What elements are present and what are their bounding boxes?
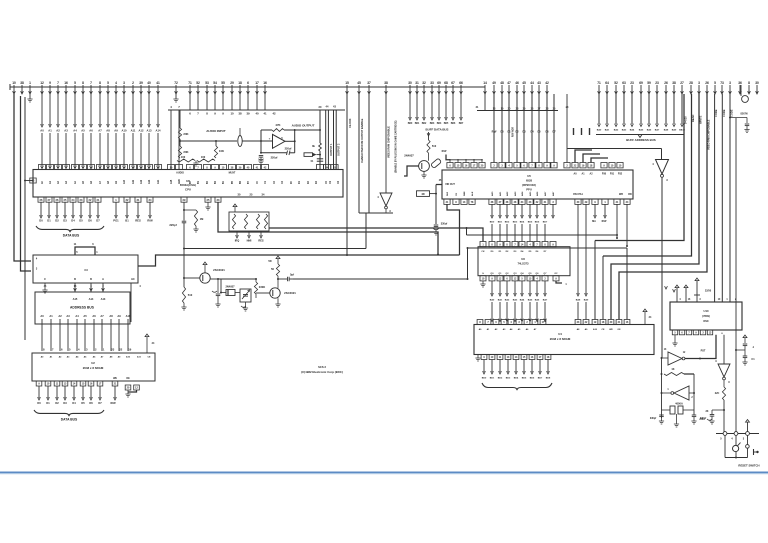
svg-text:A10: A10 xyxy=(122,129,127,133)
audio left wires down to CPU xyxy=(170,110,172,169)
latch bottom inside labels xyxy=(482,272,558,275)
svg-text:D0: D0 xyxy=(37,401,41,405)
svg-text:C3: C3 xyxy=(84,268,88,272)
resistor 1K feedback xyxy=(664,373,684,376)
svg-text:BA0: BA0 xyxy=(490,299,495,302)
resistor 100 left xyxy=(177,159,195,162)
svg-text:U5: U5 xyxy=(527,174,531,178)
svg-text:A6: A6 xyxy=(89,129,93,133)
svg-text:8: 8 xyxy=(99,81,101,85)
wire box40 to junction xyxy=(430,193,437,195)
audio rail pin numbers xyxy=(170,105,276,116)
svg-text:52: 52 xyxy=(614,81,618,85)
svg-text:2SC2021: 2SC2021 xyxy=(213,268,225,272)
svg-text:PG1: PG1 xyxy=(113,219,119,223)
svg-text:52: 52 xyxy=(196,81,200,85)
svg-text:SCS 3: SCS 3 xyxy=(318,365,326,369)
svg-text:BA4: BA4 xyxy=(630,129,635,132)
svg-text:38: 38 xyxy=(238,112,242,116)
svg-text:41: 41 xyxy=(156,81,160,85)
svg-text:ALE: ALE xyxy=(471,191,474,196)
svg-text:BD1: BD1 xyxy=(490,378,495,380)
resistor 230K xyxy=(255,279,257,282)
svg-text:14: 14 xyxy=(483,81,487,85)
svg-text:48: 48 xyxy=(500,81,504,85)
right connector rail segment xyxy=(477,110,558,112)
resistor 510 above Q3 xyxy=(428,132,430,140)
svg-text:A4: A4 xyxy=(75,314,79,318)
svg-text:P31: P31 xyxy=(610,173,615,176)
svg-text:15: 15 xyxy=(345,81,349,85)
transistor Q1 2SC2021 xyxy=(200,273,210,283)
CPU pins 25,33 xyxy=(205,197,211,202)
Q1 emitter wire xyxy=(210,278,218,280)
svg-text:D7: D7 xyxy=(98,401,102,405)
rail2 riser to U5 pin xyxy=(447,204,460,255)
U4 box xyxy=(474,325,654,355)
svg-text:230K: 230K xyxy=(259,285,265,289)
svg-text:BA8: BA8 xyxy=(664,129,669,132)
svg-text:38: 38 xyxy=(384,81,388,85)
svg-text:7: 7 xyxy=(90,81,92,85)
svg-text:+: + xyxy=(269,137,271,141)
svg-text:30: 30 xyxy=(408,81,412,85)
svg-text:A8: A8 xyxy=(106,129,110,133)
CPU top pin number boxes xyxy=(38,165,161,170)
CPU pin 36 box xyxy=(30,178,36,183)
staircase line 1 xyxy=(595,94,684,241)
capacitor 220uf to ground xyxy=(259,155,264,157)
latch U8 top pin boxes xyxy=(480,242,556,247)
svg-text:8: 8 xyxy=(748,81,750,85)
CPU U6 6502 box xyxy=(33,170,343,198)
svg-text:U4: U4 xyxy=(558,332,562,336)
svg-text:BD6: BD6 xyxy=(451,123,456,125)
svg-text:C: C xyxy=(44,278,46,281)
svg-text:BD3: BD3 xyxy=(430,123,435,125)
U5 pin21 wire down to rail xyxy=(616,204,618,238)
Q2 collector node xyxy=(277,278,279,280)
svg-text:23: 23 xyxy=(111,348,114,352)
svg-text:DATA BUS: DATA BUS xyxy=(61,418,78,422)
svg-text:AUDIO OUTPUT: AUDIO OUTPUT xyxy=(292,124,315,128)
svg-text:U10: U10 xyxy=(704,309,709,313)
svg-text:RESET SWITCH: RESET SWITCH xyxy=(738,464,759,468)
svg-text:BA6: BA6 xyxy=(535,299,540,302)
svg-text:A11: A11 xyxy=(132,179,135,184)
svg-text:4000A: 4000A xyxy=(675,402,683,406)
U5 bottom right pin boxes xyxy=(575,199,630,204)
svg-text:R/W: R/W xyxy=(602,220,607,223)
rail1 right segment to U5 pin 24 xyxy=(468,247,628,249)
right line arrow end b xyxy=(673,289,676,292)
svg-text:22: 22 xyxy=(119,348,122,352)
svg-text:CLOCK: CLOCK xyxy=(348,118,352,128)
diode D1 package xyxy=(431,158,442,168)
svg-text:BA7: BA7 xyxy=(543,299,548,302)
svg-text:AD4: AD4 xyxy=(521,191,524,196)
svg-text:BD5: BD5 xyxy=(522,378,527,380)
svg-text:45: 45 xyxy=(522,81,526,85)
decoder top loop xyxy=(75,247,95,255)
svg-text:BD3: BD3 xyxy=(513,222,518,224)
trimmer capacitor xyxy=(238,136,242,147)
svg-text:BA3: BA3 xyxy=(622,129,627,132)
svg-text:A10: A10 xyxy=(126,314,131,318)
svg-text:A0: A0 xyxy=(40,129,44,133)
svg-text:220uf: 220uf xyxy=(271,156,278,160)
svg-text:(RP2C003): (RP2C003) xyxy=(522,183,536,187)
svg-text:26: 26 xyxy=(705,81,709,85)
svg-text:3: 3 xyxy=(698,81,700,85)
capacitor at Q1 emitter xyxy=(217,279,219,293)
resistor 510 to ground xyxy=(182,287,185,303)
data bus brace xyxy=(36,226,104,232)
page bottom blue rule halo xyxy=(0,473,768,475)
svg-text:MUXT: MUXT xyxy=(229,172,236,175)
svg-text:BD5: BD5 xyxy=(528,222,533,224)
line from top pin 38 to inverter xyxy=(385,94,387,193)
audio input wire to trimmer xyxy=(180,140,237,142)
svg-text:69: 69 xyxy=(437,81,441,85)
svg-text:CK: CK xyxy=(481,251,485,253)
trimmer ground xyxy=(241,306,246,307)
U2 SRAM box xyxy=(32,353,155,381)
svg-text:BD3: BD3 xyxy=(506,378,511,380)
U10 tall vcc arrow with 22/50 xyxy=(695,278,699,281)
buff address bus bracket xyxy=(596,134,684,136)
svg-text:A12: A12 xyxy=(139,129,144,133)
svg-text:A2: A2 xyxy=(58,314,62,318)
svg-text:A7: A7 xyxy=(98,129,102,133)
svg-text:(7809): (7809) xyxy=(702,314,710,318)
rail y235 to U5 pin 21 xyxy=(467,234,618,236)
svg-text:OUTPUT 1: OUTPUT 1 xyxy=(330,143,333,156)
U4 vcc pin 24 xyxy=(643,309,647,312)
audio section top rail xyxy=(168,109,345,111)
svg-text:2048 x 8 SRAM: 2048 x 8 SRAM xyxy=(83,366,104,370)
svg-text:31: 31 xyxy=(415,81,419,85)
Q1 base wire xyxy=(184,277,200,279)
svg-text:5D: 5D xyxy=(268,259,271,263)
svg-text:A13: A13 xyxy=(147,129,152,133)
CPU pin 29 clock out xyxy=(181,197,187,202)
svg-text:100: 100 xyxy=(201,155,206,159)
connector pins above U5 on rail xyxy=(491,94,557,168)
svg-text:A1: A1 xyxy=(49,314,53,318)
svg-text:A14: A14 xyxy=(157,179,160,184)
U5 top pin boxes group1 xyxy=(446,155,485,168)
U5 P30 P31 P32 pins xyxy=(601,163,623,176)
inverter U11a xyxy=(668,352,682,365)
svg-text:BA3: BA3 xyxy=(513,299,518,302)
staircase line 3 xyxy=(611,94,699,320)
svg-text:ADDRESS BUS: ADDRESS BUS xyxy=(70,306,95,310)
svg-text:BD4: BD4 xyxy=(437,122,442,125)
svg-text:AD0: AD0 xyxy=(491,191,494,196)
ground under decoder pin 45 xyxy=(44,283,46,290)
decoder output to U2 chip enable xyxy=(130,283,132,322)
svg-text:CHARACTER ROM OUTPUT ENABLE: CHARACTER ROM OUTPUT ENABLE xyxy=(361,118,364,163)
svg-text:AUDIO INPUT: AUDIO INPUT xyxy=(206,129,226,133)
resistor 1M to ground xyxy=(183,209,185,211)
latch U8 box xyxy=(478,247,570,276)
svg-text:4: 4 xyxy=(115,81,117,85)
capacitor 220pf on clock line xyxy=(182,220,187,222)
svg-text:A13: A13 xyxy=(101,297,106,301)
clock line from top pin 15 xyxy=(346,94,348,255)
svg-text:38: 38 xyxy=(672,81,676,85)
svg-text:AD2: AD2 xyxy=(506,191,509,196)
svg-text:5pf: 5pf xyxy=(290,273,294,277)
svg-text:40: 40 xyxy=(147,81,151,85)
svg-text:NMI: NMI xyxy=(247,239,252,243)
svg-text:CE: CE xyxy=(147,357,151,359)
line from top pin 45 char rom output enable xyxy=(358,94,360,213)
svg-text:10: 10 xyxy=(230,112,234,116)
svg-text:39: 39 xyxy=(246,112,250,116)
ground between 100 ohm resistors xyxy=(195,161,197,164)
ground at top pin 1 xyxy=(29,94,31,99)
Q2 vcc and resistor 50 xyxy=(276,256,280,259)
svg-text:7: 7 xyxy=(57,81,59,85)
svg-text:OE: OE xyxy=(126,377,130,380)
address bus bottom labels xyxy=(40,314,131,318)
svg-text:BD4: BD4 xyxy=(520,221,525,224)
U5 stub wires up xyxy=(575,150,592,163)
svg-text:22/50: 22/50 xyxy=(705,290,712,293)
svg-text:6502A(CSG): 6502A(CSG) xyxy=(180,183,196,187)
output1 line pair xyxy=(325,110,327,170)
svg-text:59: 59 xyxy=(647,81,651,85)
audio output connector plug xyxy=(304,153,313,157)
video riser xyxy=(467,248,469,279)
svg-text:A9: A9 xyxy=(117,314,121,318)
wire to Q2 base xyxy=(256,292,270,294)
svg-text:37: 37 xyxy=(367,81,371,85)
latch top inside labels xyxy=(481,250,547,253)
svg-text:29: 29 xyxy=(230,81,234,85)
svg-text:(C)1982 Electronic Corp (EDC): (C)1982 Electronic Corp (EDC) xyxy=(301,370,343,374)
resistor network output wires IRQ NMI RES xyxy=(235,231,264,243)
transistor Q2 2SC2021 xyxy=(270,288,280,298)
lower feedback path with 220uf cap xyxy=(260,141,262,153)
svg-text:A11: A11 xyxy=(131,129,136,133)
svg-text:5: 5 xyxy=(714,81,716,85)
resistor 20K lower xyxy=(178,146,181,158)
svg-text:BD5: BD5 xyxy=(444,123,449,125)
svg-text:A3: A3 xyxy=(66,314,70,318)
svg-text:BD8: BD8 xyxy=(546,378,551,380)
svg-text:2N4937: 2N4937 xyxy=(225,285,235,289)
svg-text:D4: D4 xyxy=(71,219,75,223)
svg-text:2048 x 8 SRAM: 2048 x 8 SRAM xyxy=(550,337,571,341)
svg-text:8267N: 8267N xyxy=(740,113,747,116)
rail1 clock to video amp xyxy=(184,248,366,250)
svg-text:BD7: BD7 xyxy=(459,123,464,125)
network line toward latch xyxy=(269,228,483,242)
svg-text:(ENABLE BY PLUGGING IN GAME CA: (ENABLE BY PLUGGING IN GAME CARTRIDGE) xyxy=(395,120,398,173)
svg-text:A14: A14 xyxy=(156,129,161,133)
resistor 10K xyxy=(215,141,217,146)
svg-text:VIDEO RAM CHIP ENABLE: VIDEO RAM CHIP ENABLE xyxy=(388,126,391,158)
svg-text:A12: A12 xyxy=(140,179,143,184)
svg-text:22C: 22C xyxy=(715,392,720,395)
U10 vcc arrows xyxy=(675,285,679,288)
ground under pin 25 xyxy=(207,202,209,207)
address lines from top connector to CPU (A0-A14) xyxy=(40,94,161,169)
svg-text:PA0 PA1: PA0 PA1 xyxy=(573,193,583,196)
decoder U1 box xyxy=(33,255,138,283)
capacitor 330uf to ground xyxy=(434,224,439,226)
svg-text:BD6: BD6 xyxy=(530,378,535,380)
svg-text:2: 2 xyxy=(132,81,134,85)
line to U10 pin 10 xyxy=(714,94,716,302)
svg-text:D6: D6 xyxy=(89,401,93,405)
svg-text:AD7: AD7 xyxy=(544,191,547,196)
buffered data bus lines BD0-BD7 xyxy=(408,94,464,125)
svg-text:A10: A10 xyxy=(123,179,126,184)
svg-text:A7: A7 xyxy=(100,314,104,318)
svg-text:BD4: BD4 xyxy=(514,377,519,380)
svg-text:BA7: BA7 xyxy=(655,129,660,132)
oscillator left rail xyxy=(661,358,663,418)
junction from rail1 to Q1 xyxy=(183,249,185,288)
transistor Q3 2N4937 xyxy=(419,161,430,172)
address bus box xyxy=(35,292,130,324)
svg-text:CK: CK xyxy=(456,192,458,196)
svg-text:1K: 1K xyxy=(671,368,674,371)
svg-text:P32: P32 xyxy=(618,173,623,176)
svg-text:3: 3 xyxy=(729,81,731,85)
svg-text:CPU: CPU xyxy=(185,188,191,192)
crystal ground xyxy=(676,414,678,424)
svg-text:19: 19 xyxy=(128,348,131,352)
svg-text:10: 10 xyxy=(12,81,16,85)
svg-text:3: 3 xyxy=(123,81,125,85)
U5 pin24 wire down to rail xyxy=(626,204,628,246)
svg-text:3b: 3b xyxy=(312,144,315,148)
svg-text:MA: MA xyxy=(592,220,596,223)
reset switch left leg xyxy=(724,435,726,457)
svg-text:66: 66 xyxy=(459,81,463,85)
ground at top pin 72 xyxy=(175,94,177,99)
svg-text:HC: HC xyxy=(131,278,135,281)
resistor 220 xyxy=(723,380,725,387)
latch ground left xyxy=(482,281,484,284)
svg-text:10K: 10K xyxy=(219,149,224,153)
CPU top numbers right part xyxy=(167,165,338,170)
U4 bottom pins xyxy=(481,355,551,375)
svg-text:BA2: BA2 xyxy=(505,299,510,302)
svg-text:A13: A13 xyxy=(148,179,151,184)
U5 bottom pin boxes data xyxy=(489,199,556,218)
U5 left bottom pins xyxy=(444,199,475,204)
Q3 base loop wire xyxy=(404,166,419,176)
Q2 emitter to ground xyxy=(277,298,279,304)
U5 address stub pins A0 A1 A2 xyxy=(572,163,594,176)
tap to rail y235 xyxy=(466,228,468,235)
latch output wires BA0-BA7 xyxy=(490,281,548,322)
svg-text:CE: CE xyxy=(601,329,605,331)
reset rail xyxy=(716,433,759,435)
svg-text:D4: D4 xyxy=(72,401,76,405)
svg-text:WRITE: WRITE xyxy=(699,115,703,124)
U11a output wire to PST xyxy=(685,335,716,359)
latch OC pin ground xyxy=(556,281,562,283)
svg-text:27: 27 xyxy=(680,81,684,85)
svg-text:A9: A9 xyxy=(114,129,118,133)
svg-text:1: 1 xyxy=(29,81,31,85)
vcc arrow over resistor network xyxy=(233,204,237,207)
svg-text:74LS373: 74LS373 xyxy=(518,262,529,266)
reset switch right contact xyxy=(747,435,749,444)
svg-text:B1: B1 xyxy=(125,219,129,223)
svg-text:2K: 2K xyxy=(705,410,708,413)
svg-text:23: 23 xyxy=(655,81,659,85)
svg-text:BD2: BD2 xyxy=(422,123,427,125)
svg-text:71: 71 xyxy=(597,81,601,85)
svg-text:D2: D2 xyxy=(55,401,59,405)
svg-text:6: 6 xyxy=(247,81,249,85)
svg-text:2SC2021: 2SC2021 xyxy=(284,291,296,295)
svg-text:BD2: BD2 xyxy=(505,222,510,224)
CPU top pin rotated labels xyxy=(41,179,340,184)
svg-text:45: 45 xyxy=(357,81,361,85)
svg-text:42: 42 xyxy=(272,112,276,116)
svg-text:A: A xyxy=(102,278,104,281)
svg-text:A15: A15 xyxy=(170,179,173,184)
wire pin 33 to rail2 drop xyxy=(218,202,438,254)
svg-text:BD6: BD6 xyxy=(535,222,540,224)
svg-text:A15: A15 xyxy=(73,297,78,301)
svg-text:BUFF DATA BUS: BUFF DATA BUS xyxy=(426,128,449,132)
svg-text:50: 50 xyxy=(271,267,274,271)
reset vcc arrow xyxy=(746,420,750,423)
svg-text:510: 510 xyxy=(432,144,437,148)
CPU data bus pins 26-21 xyxy=(38,197,101,223)
svg-text:R/W: R/W xyxy=(110,401,116,405)
op-amp input junction xyxy=(260,140,262,142)
svg-text:6528: 6528 xyxy=(526,179,532,183)
op-amp output wire xyxy=(285,140,295,142)
series cap 01 on output column xyxy=(317,158,323,160)
svg-text:BA8: BA8 xyxy=(576,299,581,302)
inverter U9b xyxy=(656,160,669,175)
svg-text:AD1: AD1 xyxy=(499,191,502,196)
svg-text:P30: P30 xyxy=(602,173,607,176)
svg-text:BA1: BA1 xyxy=(605,129,610,132)
reset plug mark xyxy=(753,449,755,455)
svg-text:330uf: 330uf xyxy=(441,223,448,226)
svg-text:READ: READ xyxy=(691,115,695,122)
svg-text:38: 38 xyxy=(20,81,24,85)
svg-text:AUD: AUD xyxy=(178,179,181,184)
svg-text:32: 32 xyxy=(422,81,426,85)
svg-text:40: 40 xyxy=(255,112,259,116)
svg-text:510: 510 xyxy=(188,293,193,297)
svg-text:69: 69 xyxy=(639,81,643,85)
svg-text:BA4: BA4 xyxy=(520,299,525,302)
svg-text:VID OUT: VID OUT xyxy=(445,183,455,186)
riser from inverter rail to rail1 xyxy=(365,213,367,249)
line from top pin 37 xyxy=(368,94,370,213)
reset bottom wire xyxy=(725,457,748,459)
U4 brace xyxy=(482,383,552,390)
svg-text:A6: A6 xyxy=(92,314,96,318)
U4 top pin boxes right xyxy=(575,320,630,325)
audio output line to right xyxy=(295,129,320,131)
